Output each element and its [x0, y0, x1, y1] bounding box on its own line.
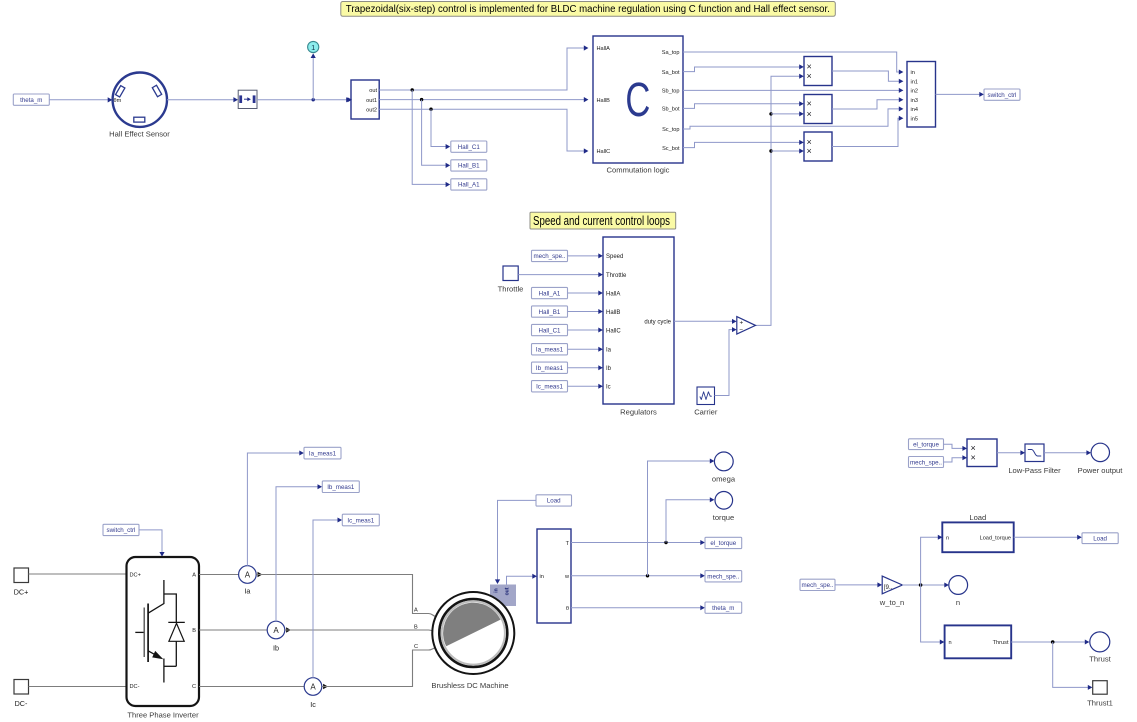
svg-text:Hall Effect Sensor: Hall Effect Sensor	[109, 130, 170, 139]
svg-text:×: ×	[971, 452, 976, 462]
svg-text:n: n	[956, 598, 960, 607]
svg-text:mech_spe..: mech_spe..	[910, 459, 942, 466]
svg-text:Throttle: Throttle	[498, 285, 524, 294]
svg-text:×: ×	[807, 99, 812, 109]
svg-text:Ia_meas1: Ia_meas1	[536, 347, 564, 354]
svg-text:A: A	[414, 608, 418, 614]
svg-text:omega: omega	[712, 475, 736, 484]
svg-text:Ic: Ic	[606, 385, 611, 391]
svg-text:Sc_top: Sc_top	[662, 127, 679, 133]
svg-text:Hall_C1: Hall_C1	[458, 144, 481, 151]
svg-text:torque: torque	[713, 513, 735, 522]
svg-text:Hall_A1: Hall_A1	[539, 290, 561, 297]
svg-text:mech_spe..: mech_spe..	[802, 582, 834, 589]
svg-text:switch_ctrl: switch_ctrl	[107, 527, 136, 534]
svg-text:[9..: [9..	[884, 584, 893, 591]
svg-text:out1: out1	[366, 98, 377, 104]
svg-text:duty cycle: duty cycle	[644, 320, 671, 326]
svg-text:n: n	[949, 640, 952, 646]
svg-text:in: in	[911, 70, 915, 76]
svg-text:Speed: Speed	[606, 254, 623, 260]
svg-text:n: n	[946, 536, 949, 542]
svg-text:in: in	[493, 588, 499, 592]
svg-text:Thrust: Thrust	[993, 640, 1009, 646]
svg-text:A: A	[245, 571, 251, 580]
svg-text:θm: θm	[114, 98, 122, 104]
svg-text:in1: in1	[911, 80, 918, 86]
svg-text:el_torque: el_torque	[913, 442, 939, 449]
svg-text:switch_ctrl: switch_ctrl	[988, 92, 1017, 99]
svg-text:Sb_top: Sb_top	[662, 89, 680, 95]
svg-text:−: −	[739, 327, 743, 334]
svg-text:Hall_A1: Hall_A1	[458, 182, 480, 189]
svg-text:Ib_meas1: Ib_meas1	[327, 484, 355, 491]
svg-text:A: A	[192, 573, 196, 579]
svg-text:Thrust: Thrust	[1089, 655, 1111, 664]
svg-text:×: ×	[807, 62, 812, 72]
svg-text:B: B	[414, 624, 418, 630]
svg-text:Load: Load	[547, 498, 561, 505]
svg-text:Power output: Power output	[1078, 466, 1124, 475]
svg-text:mech_spe..: mech_spe..	[534, 253, 566, 260]
svg-text:Low-Pass Filter: Low-Pass Filter	[1008, 466, 1061, 475]
svg-text:Regulators: Regulators	[620, 408, 657, 417]
svg-text:Three Phase Inverter: Three Phase Inverter	[127, 711, 199, 720]
svg-text:HallC: HallC	[606, 328, 621, 334]
svg-text:Ic: Ic	[310, 700, 316, 709]
svg-text:DC+: DC+	[14, 588, 29, 597]
svg-text:out2: out2	[366, 107, 377, 113]
svg-text:in2: in2	[911, 88, 918, 94]
svg-text:C: C	[625, 72, 650, 126]
svg-text:B: B	[192, 628, 196, 634]
svg-text:theta_m: theta_m	[712, 605, 734, 612]
svg-text:Sa_top: Sa_top	[662, 50, 680, 56]
svg-text:Sb_bot: Sb_bot	[662, 107, 680, 113]
svg-text:DC-: DC-	[15, 699, 28, 708]
svg-text:θ: θ	[566, 606, 569, 612]
svg-text:Ia_meas1: Ia_meas1	[309, 450, 337, 457]
svg-text:in5: in5	[911, 116, 918, 122]
svg-text:Ia: Ia	[244, 587, 250, 596]
svg-text:C: C	[192, 684, 196, 690]
svg-text:T: T	[566, 541, 570, 547]
svg-text:Load: Load	[1093, 536, 1107, 543]
svg-text:HallA: HallA	[606, 291, 620, 297]
svg-text:×: ×	[807, 71, 812, 81]
svg-text:out: out	[369, 88, 377, 94]
svg-text:×: ×	[807, 109, 812, 119]
svg-text:theta_m: theta_m	[20, 97, 42, 104]
svg-text:Speed and current control loop: Speed and current control loops	[533, 214, 670, 228]
svg-text:Ib: Ib	[606, 366, 612, 372]
svg-text:out: out	[505, 587, 511, 595]
svg-text:Hall_B1: Hall_B1	[539, 309, 561, 316]
svg-text:Commutation logic: Commutation logic	[607, 166, 670, 175]
svg-text:in: in	[540, 574, 544, 580]
svg-text:Throttle: Throttle	[606, 273, 627, 279]
svg-text:Carrier: Carrier	[694, 408, 718, 417]
svg-text:HallA: HallA	[597, 46, 611, 52]
svg-text:Ic_meas1: Ic_meas1	[536, 384, 563, 391]
svg-text:Trapezoidal(six-step) control: Trapezoidal(six-step) control is impleme…	[346, 4, 830, 15]
svg-text:Hall_B1: Hall_B1	[458, 163, 480, 170]
svg-text:mech_spe..: mech_spe..	[707, 574, 739, 581]
svg-text:w_to_n: w_to_n	[879, 598, 905, 607]
svg-text:el_torque: el_torque	[710, 540, 736, 547]
svg-text:Ib_meas1: Ib_meas1	[536, 365, 564, 372]
svg-text:Ib: Ib	[273, 644, 279, 653]
svg-text:Sc_bot: Sc_bot	[662, 146, 680, 152]
svg-text:Brushless DC Machine: Brushless DC Machine	[431, 681, 508, 690]
svg-text:in3: in3	[911, 98, 918, 104]
svg-text:Hall_C1: Hall_C1	[538, 327, 561, 334]
svg-text:Thrust1: Thrust1	[1087, 699, 1113, 708]
svg-text:Ia: Ia	[606, 348, 612, 354]
svg-text:Sa_bot: Sa_bot	[662, 70, 680, 76]
svg-text:DC-: DC-	[130, 684, 140, 690]
svg-text:×: ×	[807, 146, 812, 156]
svg-text:HallB: HallB	[597, 98, 611, 104]
svg-text:in4: in4	[911, 107, 918, 113]
svg-text:DC+: DC+	[130, 573, 141, 579]
svg-text:HallC: HallC	[597, 149, 611, 155]
svg-text:HallB: HallB	[606, 310, 620, 316]
svg-text:C: C	[414, 644, 418, 650]
svg-text:Load_torque: Load_torque	[980, 536, 1011, 542]
svg-text:Load: Load	[969, 513, 986, 522]
svg-text:Ic_meas1: Ic_meas1	[347, 517, 374, 524]
svg-text:A: A	[310, 683, 316, 692]
svg-text:A: A	[273, 626, 279, 635]
svg-text:1: 1	[311, 43, 315, 52]
svg-text:+: +	[740, 320, 744, 327]
